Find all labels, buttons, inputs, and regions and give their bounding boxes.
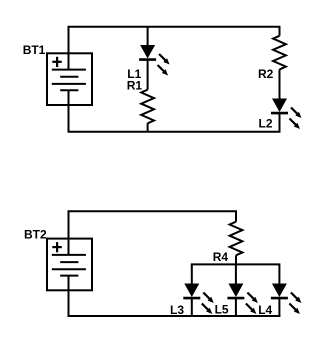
svg-text:L4: L4: [258, 303, 272, 317]
svg-text:R1: R1: [127, 78, 143, 92]
svg-text:R2: R2: [258, 67, 274, 81]
svg-text:L2: L2: [259, 117, 273, 131]
svg-text:BT1: BT1: [23, 43, 46, 57]
svg-text:BT2: BT2: [24, 228, 47, 242]
svg-text:R4: R4: [213, 250, 229, 264]
svg-text:L5: L5: [215, 303, 229, 317]
svg-text:L3: L3: [170, 303, 184, 317]
